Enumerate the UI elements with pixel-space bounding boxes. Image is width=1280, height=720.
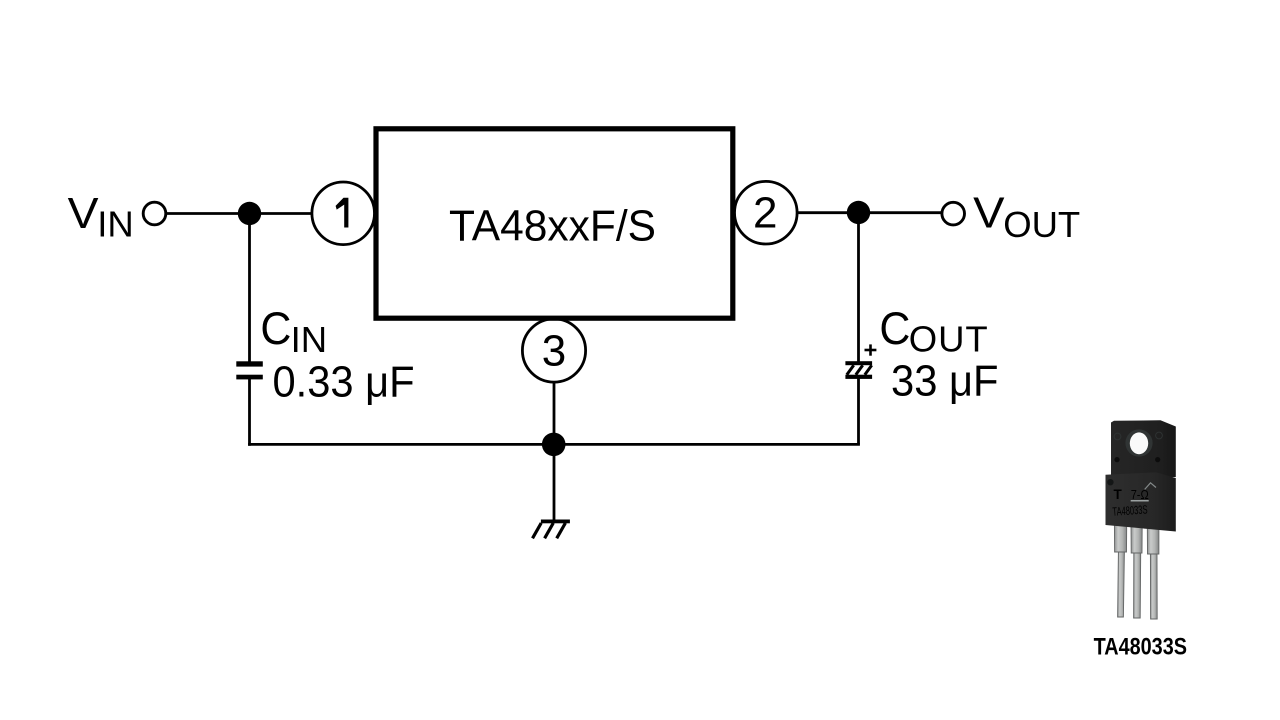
svg-text:0.33 μF: 0.33 μF [273, 358, 415, 407]
svg-text:V: V [973, 190, 1004, 238]
svg-text:C: C [260, 303, 291, 354]
svg-text:OUT: OUT [909, 319, 988, 360]
svg-text:T: T [1114, 487, 1123, 502]
svg-text:C: C [879, 303, 910, 354]
svg-text:3: 3 [542, 326, 566, 375]
svg-text:TA48033S: TA48033S [1112, 502, 1148, 518]
svg-text:2: 2 [753, 189, 777, 238]
svg-text:IN: IN [291, 319, 328, 360]
svg-text:33 μF: 33 μF [891, 357, 999, 406]
svg-text:TA48xxF/S: TA48xxF/S [449, 202, 656, 250]
svg-text:OUT: OUT [1003, 204, 1080, 245]
svg-text:V: V [68, 190, 99, 238]
svg-text:7-Ω: 7-Ω [1131, 487, 1149, 502]
svg-text:TA48033S: TA48033S [1094, 633, 1187, 660]
svg-text:IN: IN [97, 204, 134, 245]
